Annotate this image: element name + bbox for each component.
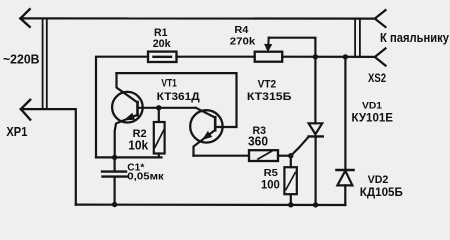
diode VD2 bottom wire: [344, 185, 346, 205]
svg-text:R4: R4: [234, 25, 248, 36]
node A: VT1 base / R2 top junction: [156, 105, 161, 110]
svg-text:XS2: XS2: [368, 73, 386, 85]
node C1 bottom rail junction: [112, 202, 117, 207]
diode VD2 triangle: [337, 171, 352, 186]
R4 wiper arrow: [267, 38, 269, 46]
thyristor VD1 cathode bar: [309, 135, 323, 137]
connector XP1 body double line: [42, 18, 44, 109]
svg-text:0,05мк: 0,05мк: [127, 171, 164, 183]
transistor VT1 collector: [117, 73, 138, 102]
wire VT1 base to node A: [138, 107, 196, 109]
transistor VT2 emitter: [194, 130, 216, 156]
resistor R1 inner mark: [154, 56, 172, 58]
svg-text:ХР1: ХР1: [6, 125, 27, 139]
wire XP1 pin2 to bottom rail: [21, 109, 76, 205]
node R5 bottom rail junction: [288, 202, 293, 207]
svg-text:VT2: VT2: [258, 79, 277, 91]
node rail-VD2 junction: [343, 54, 348, 59]
capacitor C1 top plate: [102, 170, 126, 172]
svg-text:100: 100: [261, 178, 280, 192]
svg-text:R1: R1: [154, 27, 168, 39]
resistor R2 inner mark: [155, 129, 164, 147]
wire R5 bottom lead: [290, 194, 292, 205]
svg-text:VD2: VD2: [368, 174, 389, 186]
wire loop VT1 collector - VT2 base: [117, 73, 237, 127]
svg-text:КТ315Б: КТ315Б: [247, 91, 292, 103]
thyristor VD1 gate lead: [291, 137, 309, 156]
transistor VT1 circle: [112, 92, 143, 123]
svg-text:VT1: VT1: [161, 78, 177, 90]
svg-text:20k: 20k: [153, 38, 172, 50]
wire R3 right lead to gate node: [278, 155, 291, 157]
connector XP1 pin 1 arrow: [20, 9, 29, 27]
svg-text:270k: 270k: [230, 37, 256, 48]
diode VD2 cathode bar: [336, 169, 353, 171]
capacitor C1 top lead: [113, 157, 115, 171]
node VD1 bottom rail junction: [313, 202, 318, 207]
transistor VT2 base bar: [214, 117, 217, 130]
thyristor VD1 cathode wire: [315, 136, 317, 205]
diode VD2 top wire: [344, 57, 346, 170]
svg-text:КТ361Д: КТ361Д: [157, 91, 200, 103]
resistor R1: [148, 52, 177, 62]
wire VT2 emitter to R3: [194, 155, 250, 157]
wire top rail: [20, 17, 374, 19]
transistor VT2 emitter arrow (NPN, points out): [203, 132, 212, 140]
transistor VT2 collector: [196, 108, 215, 118]
transistor VT2 circle: [190, 110, 222, 142]
wire R5 top lead: [290, 156, 292, 168]
wire R1 to R4: [177, 56, 255, 58]
svg-text:VD1: VD1: [362, 101, 383, 112]
svg-text:КД105Б: КД105Б: [360, 187, 403, 199]
capacitor C1 bottom lead: [113, 177, 115, 205]
wire R4 right to XS2 rail: [282, 56, 375, 58]
thyristor VD1 triangle: [309, 123, 323, 134]
node C1 top junction: [112, 155, 117, 160]
connector XS2 body double line: [354, 19, 356, 57]
svg-text:10k: 10k: [128, 139, 148, 153]
transistor VT1 emitter arrow (PNP, points to bar): [124, 113, 134, 120]
connector XS2 pin 2 fork: [375, 48, 386, 65]
wire upper rail left corner down to emitter node: [96, 57, 148, 158]
transistor VT1 base bar: [136, 102, 139, 115]
resistor R5 inner mark: [286, 173, 295, 190]
svg-text:360: 360: [248, 134, 268, 148]
wire midline left segment: [96, 156, 162, 158]
wire R2 top lead: [158, 108, 160, 122]
resistor R5: [284, 167, 296, 194]
resistor R3: [249, 150, 278, 161]
svg-text:КУ101Е: КУ101Е: [352, 113, 394, 125]
svg-text:К паяльнику: К паяльнику: [380, 30, 450, 45]
node gate junction: [288, 153, 293, 158]
capacitor C1 bottom plate: [103, 175, 128, 177]
transistor VT1 emitter: [115, 115, 138, 158]
thyristor VD1 anode wire: [314, 57, 316, 124]
connector XS2 pin 1 fork: [375, 10, 386, 27]
connector XP1 pin 2 arrow: [21, 100, 30, 120]
wire R2 bottom lead: [158, 154, 160, 158]
wire R4 wiper to rail: [269, 38, 316, 57]
node rail-VD1 junction: [313, 54, 318, 59]
resistor R3 inner mark: [258, 151, 272, 159]
resistor R2: [154, 122, 165, 154]
svg-text:~220В: ~220В: [3, 51, 40, 66]
resistor R4: [255, 52, 283, 62]
wire bottom rail: [76, 204, 346, 207]
